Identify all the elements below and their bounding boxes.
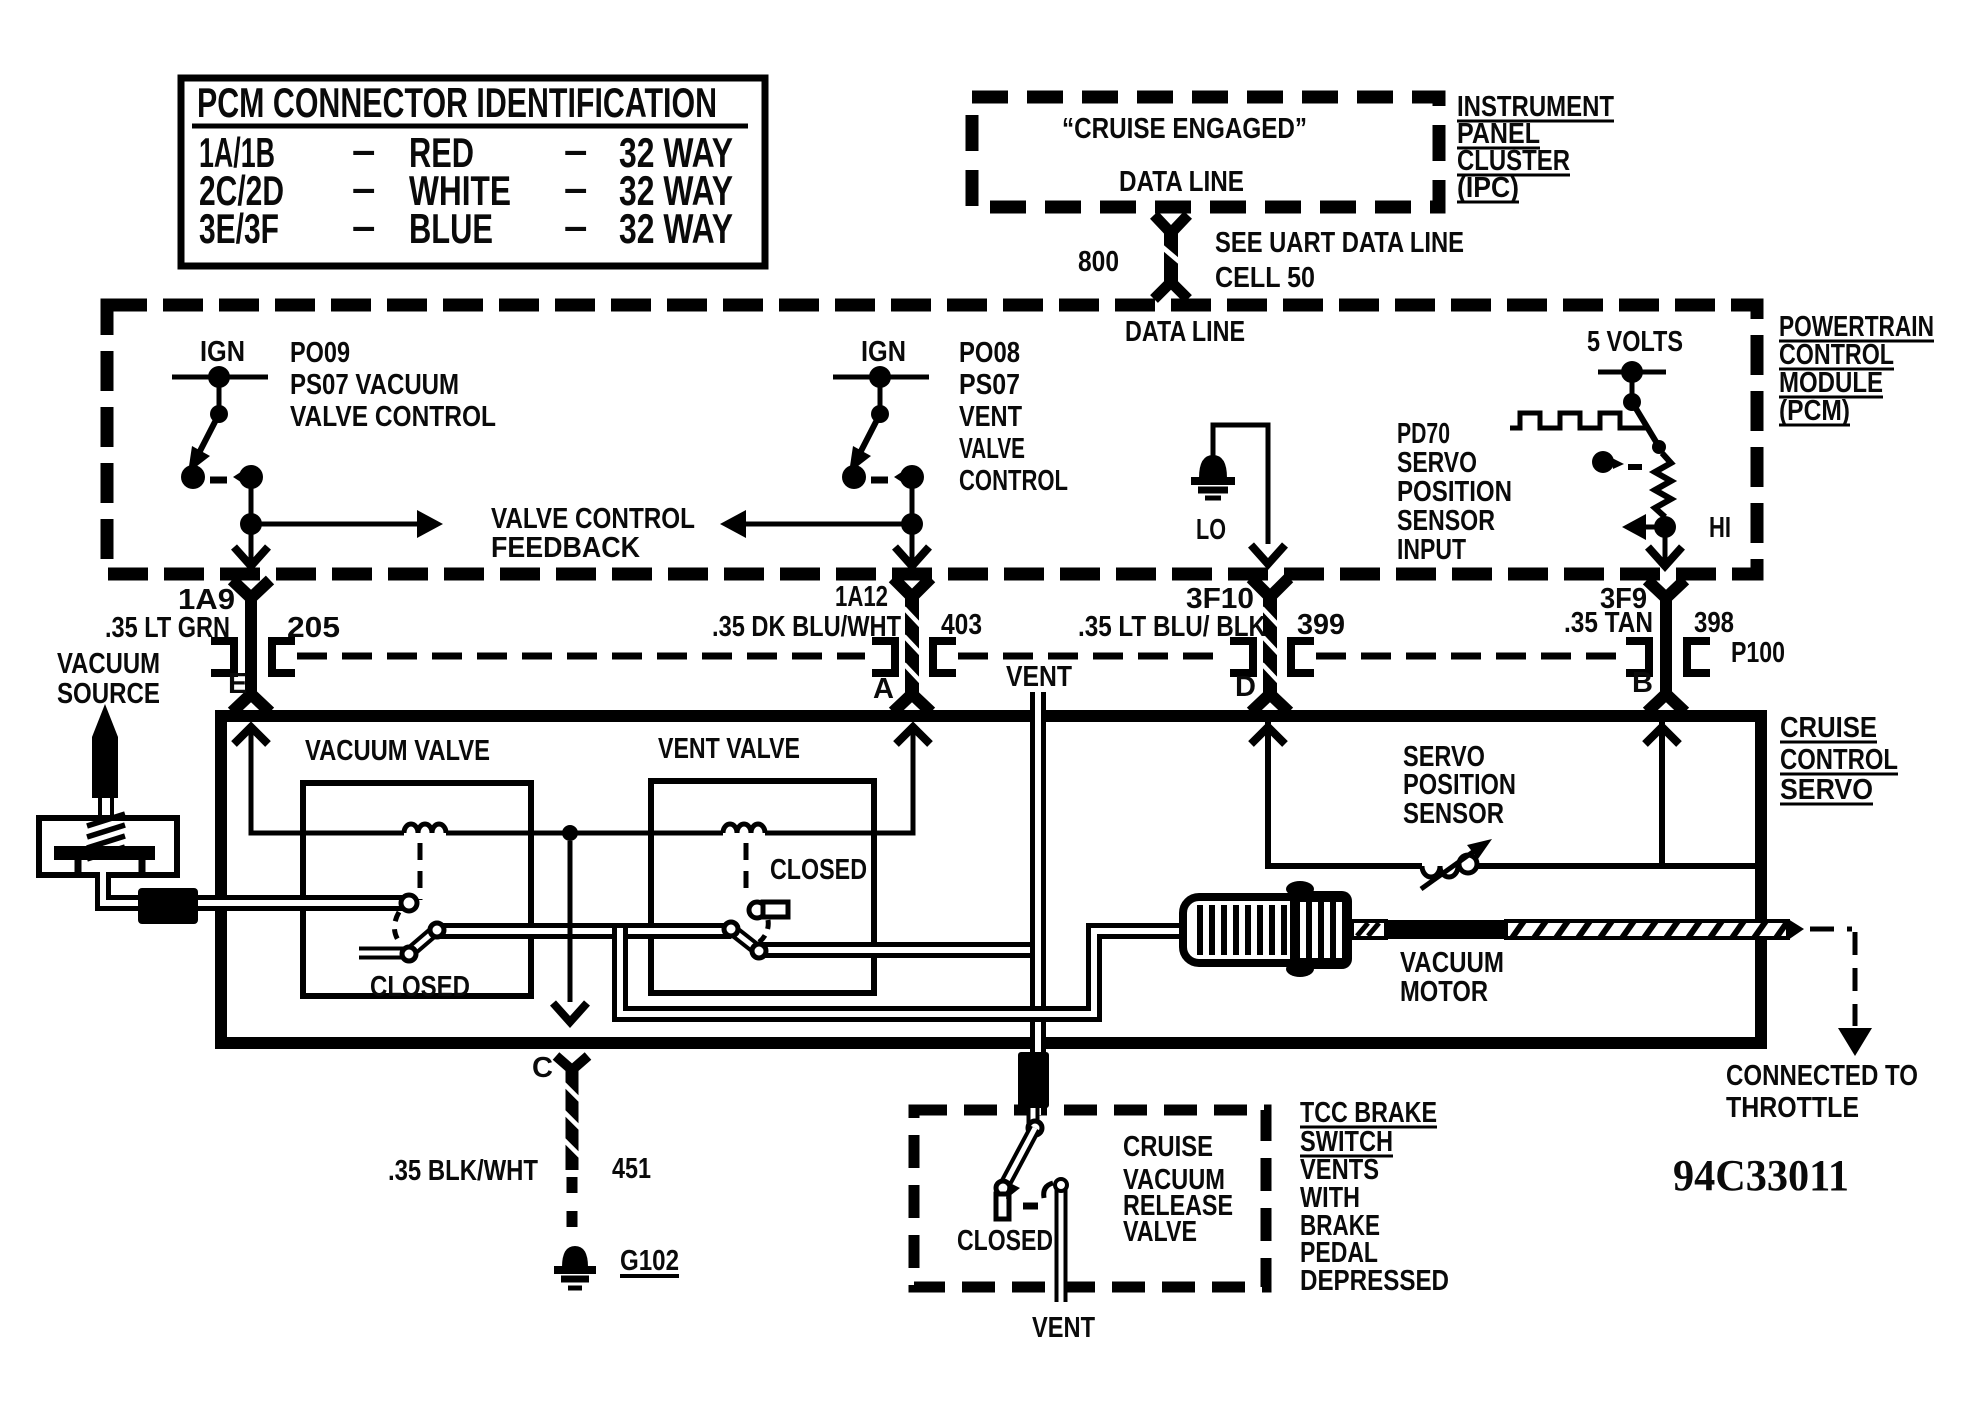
svg-text:VALVE CONTROL: VALVE CONTROL <box>290 401 496 433</box>
collar bumps <box>1286 881 1314 897</box>
svg-text:CONTROL: CONTROL <box>1780 744 1898 776</box>
bellows collar <box>1290 891 1352 969</box>
svg-text:“CRUISE ENGAGED”: “CRUISE ENGAGED” <box>1062 113 1307 145</box>
arrow into connector 1A12 <box>895 547 929 566</box>
svg-text:VACUUM: VACUUM <box>1400 947 1504 979</box>
table title underline <box>192 124 748 129</box>
servo coil feed wire E <box>251 726 404 833</box>
svg-text:VALVE CONTROL: VALVE CONTROL <box>491 503 695 535</box>
check valve body <box>39 818 177 875</box>
pipe P4 vent valve to brake release valve <box>760 942 1038 958</box>
svg-text:INPUT: INPUT <box>1397 534 1466 566</box>
switch PS07 vacuum valve control: IGN feed <box>172 375 268 380</box>
HI arrow <box>1642 525 1665 530</box>
connector D (3F10) <box>1251 578 1289 597</box>
brake valve connector block <box>1018 1052 1049 1108</box>
svg-text:CONNECTED TO: CONNECTED TO <box>1726 1060 1918 1092</box>
svg-text:VENT VALVE: VENT VALVE <box>658 733 800 765</box>
svg-text:CLOSED: CLOSED <box>370 971 470 1003</box>
switch PS07 vent valve control: IGN feed <box>833 375 929 380</box>
svg-text:VALVE: VALVE <box>1123 1216 1197 1248</box>
PWM square wave <box>1510 413 1648 428</box>
cruise control servo box <box>221 716 1761 1043</box>
svg-text:HI: HI <box>1709 512 1731 544</box>
svg-text:TCC BRAKE: TCC BRAKE <box>1300 1097 1437 1129</box>
pipe P3 branch to vacuum motor <box>620 928 1185 1014</box>
svg-text:398: 398 <box>1694 607 1734 639</box>
vacuum valve pivot <box>401 895 417 911</box>
wire 399 <box>1316 653 1624 660</box>
svg-text:VALVE: VALVE <box>959 433 1025 465</box>
svg-text:CRUISE: CRUISE <box>1123 1131 1213 1163</box>
coil dashed stem vent valve <box>744 843 749 897</box>
vacuum valve flap <box>359 929 437 953</box>
vacuum filter <box>138 888 198 924</box>
dashed link to throttle <box>1810 927 1852 932</box>
svg-text:.35 LT BLU/ BLK: .35 LT BLU/ BLK <box>1078 611 1266 643</box>
svg-text:IGN: IGN <box>200 336 245 368</box>
svg-text:SENSOR: SENSOR <box>1397 505 1495 537</box>
pipe P1 filter to vacuum valve <box>198 895 404 911</box>
TCC valve pivot <box>1028 1121 1042 1135</box>
svg-text:SEE UART DATA LINE: SEE UART DATA LINE <box>1215 227 1464 259</box>
ground G102 <box>562 1246 588 1267</box>
wire coil to junction <box>446 831 723 836</box>
vent valve seat <box>749 902 765 918</box>
svg-text:.35 DK BLU/WHT: .35 DK BLU/WHT <box>712 611 901 643</box>
potentiometer wiper circle <box>1459 855 1477 873</box>
connector A (1A12) <box>893 578 931 597</box>
connector C <box>556 1056 588 1070</box>
svg-text:SERVO: SERVO <box>1397 447 1477 479</box>
wire junction to connector C <box>568 841 573 1002</box>
svg-text:–: – <box>352 202 375 249</box>
throttle arrow <box>1838 1028 1872 1056</box>
svg-text:CELL 50: CELL 50 <box>1215 262 1315 294</box>
potentiometer wiper arrow <box>1421 849 1477 889</box>
wire 403 <box>958 653 1224 660</box>
svg-text:POSITION: POSITION <box>1397 476 1512 508</box>
svg-text:CONTROL: CONTROL <box>959 465 1068 497</box>
svg-text:451: 451 <box>612 1153 651 1185</box>
check valve spring <box>87 814 125 859</box>
svg-text:205: 205 <box>287 612 340 644</box>
svg-text:94C33011: 94C33011 <box>1673 1151 1849 1200</box>
svg-text:PS07: PS07 <box>959 369 1020 401</box>
vent valve coil <box>723 824 765 833</box>
svg-text:B: B <box>1632 667 1653 699</box>
svg-text:SENSOR: SENSOR <box>1403 798 1504 830</box>
vacuum source arrow stem <box>98 798 102 820</box>
svg-text:C: C <box>532 1052 553 1084</box>
svg-text:G102: G102 <box>620 1245 679 1277</box>
wire 205 <box>297 653 865 660</box>
svg-text:PO08: PO08 <box>959 337 1020 369</box>
arrow up below servo top border (B) <box>1645 727 1679 744</box>
svg-text:VENT: VENT <box>1032 1312 1095 1344</box>
TCC brake switch box <box>914 1110 1266 1287</box>
vent pipe into servo <box>1030 692 1046 950</box>
TCC valve lever <box>1003 1128 1035 1188</box>
svg-text:MOTOR: MOTOR <box>1400 976 1488 1008</box>
servo position sensor sub-box <box>1268 722 1757 866</box>
arrow into connector 3F9 <box>1663 527 1668 562</box>
vent valve flap <box>731 929 759 951</box>
svg-text:1A12: 1A12 <box>835 581 888 613</box>
brake valve stem <box>1027 1108 1040 1124</box>
svg-text:CLOSED: CLOSED <box>957 1225 1053 1257</box>
svg-text:403: 403 <box>941 609 982 641</box>
svg-text:800: 800 <box>1078 246 1119 278</box>
svg-text:.35 TAN: .35 TAN <box>1564 607 1653 639</box>
vacuum valve movement arc <box>394 912 401 944</box>
motor rod striped shaft <box>1506 921 1788 938</box>
motor rod solid segment <box>1386 920 1506 939</box>
svg-text:3E/3F: 3E/3F <box>199 205 279 252</box>
svg-text:DATA LINE: DATA LINE <box>1119 166 1244 198</box>
switch arm <box>860 414 880 453</box>
connector E (1A9) <box>232 580 270 598</box>
svg-text:DEPRESSED: DEPRESSED <box>1300 1265 1449 1297</box>
powertrain control module (PCM) box <box>107 305 1757 574</box>
svg-text:LO: LO <box>1196 514 1226 546</box>
svg-text:(PCM): (PCM) <box>1779 395 1850 427</box>
svg-text:32 WAY: 32 WAY <box>619 205 733 252</box>
svg-text:CLOSED: CLOSED <box>770 854 867 886</box>
servo position sense resistor <box>1655 453 1671 517</box>
svg-text:399: 399 <box>1297 609 1345 641</box>
rod tip <box>1788 919 1804 940</box>
bellows pleats <box>1200 905 1284 955</box>
svg-text:A: A <box>873 673 894 705</box>
svg-text:IGN: IGN <box>861 336 906 368</box>
svg-text:BLUE: BLUE <box>409 205 493 252</box>
pipe from check valve to filter <box>103 872 150 903</box>
motor rod hatched segment <box>1352 921 1386 938</box>
connector 800 (data line) <box>1154 215 1188 233</box>
arrow up below servo top border (E) <box>234 727 268 744</box>
wire to valve control feedback <box>249 477 254 562</box>
pipe down to release valve <box>1030 944 1046 1115</box>
svg-text:PD70: PD70 <box>1397 418 1450 450</box>
arrow up below servo top border (D) <box>1251 727 1285 744</box>
svg-text:PO09: PO09 <box>290 337 350 369</box>
wire 451 to ground <box>567 1177 578 1242</box>
svg-text:SERVO: SERVO <box>1780 774 1873 806</box>
svg-text:.35 BLK/WHT: .35 BLK/WHT <box>388 1155 538 1187</box>
svg-text:FEEDBACK: FEEDBACK <box>491 532 640 564</box>
svg-text:.35 LT GRN: .35 LT GRN <box>105 612 230 644</box>
potentiometer bumps <box>1422 866 1458 877</box>
svg-text:VACUUM: VACUUM <box>57 648 160 680</box>
check valve diaphragm <box>54 846 155 860</box>
TCC valve contact <box>996 1194 1009 1219</box>
wire to valve control feedback (left arrow) <box>910 477 915 562</box>
svg-text:P100: P100 <box>1731 637 1785 669</box>
svg-text:D: D <box>1235 671 1256 703</box>
vent valve movement arc <box>757 920 768 944</box>
svg-text:VENT: VENT <box>1006 661 1072 693</box>
switch arm <box>199 414 219 453</box>
arrow up below servo top border (A) <box>896 727 930 744</box>
svg-text:5 VOLTS: 5 VOLTS <box>1587 326 1683 358</box>
5 volts feed <box>1598 370 1666 375</box>
vacuum motor bellows body <box>1183 897 1333 963</box>
svg-text:(IPC): (IPC) <box>1457 172 1519 204</box>
svg-text:PCM CONNECTOR IDENTIFICATION: PCM CONNECTOR IDENTIFICATION <box>197 79 717 126</box>
svg-text:E: E <box>228 668 247 700</box>
vacuum valve sub-box <box>303 783 531 996</box>
svg-text:PS07 VACUUM: PS07 VACUUM <box>290 369 459 401</box>
LO ground symbol <box>1199 455 1227 478</box>
LO wire <box>1213 425 1268 544</box>
svg-text:–: – <box>564 202 587 249</box>
connector B (3F9) <box>1647 580 1685 598</box>
arrow into connector 1A9 <box>234 547 268 566</box>
svg-text:DATA LINE: DATA LINE <box>1125 316 1245 348</box>
svg-text:VACUUM VALVE: VACUUM VALVE <box>305 735 490 767</box>
svg-text:SOURCE: SOURCE <box>57 678 160 710</box>
vacuum source arrow <box>92 704 118 798</box>
instrument panel cluster (IPC) box <box>972 97 1439 207</box>
5V switch arm <box>1632 402 1658 445</box>
pipe P2 vacuum valve to vent valve <box>436 923 731 939</box>
coil dashed stem vacuum valve <box>418 843 423 900</box>
PCM connector identification table <box>181 78 765 266</box>
svg-text:CRUISE: CRUISE <box>1780 712 1877 744</box>
svg-text:VENT: VENT <box>959 401 1022 433</box>
svg-text:THROTTLE: THROTTLE <box>1726 1092 1859 1124</box>
vent valve sub-box <box>651 781 874 993</box>
svg-text:POSITION: POSITION <box>1403 769 1516 801</box>
vacuum valve coil <box>404 824 446 833</box>
TCC vent pipe <box>1055 1186 1068 1302</box>
wire coil to connector A <box>765 726 913 833</box>
